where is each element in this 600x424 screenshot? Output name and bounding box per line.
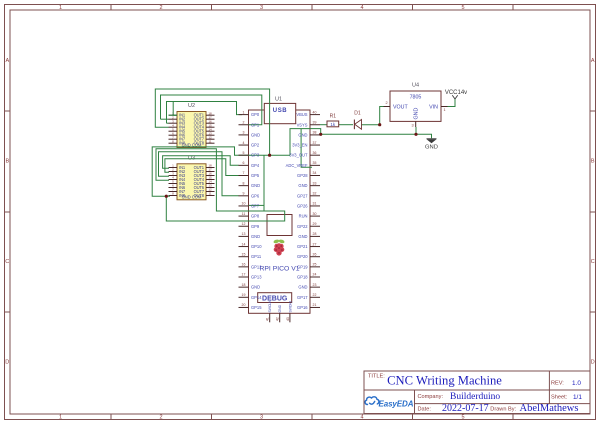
svg-text:41: 41	[266, 317, 270, 321]
svg-text:TITLE:: TITLE:	[368, 374, 385, 380]
svg-text:GP1: GP1	[251, 122, 260, 127]
svg-text:18: 18	[242, 283, 246, 287]
svg-text:32: 32	[313, 192, 317, 196]
svg-text:28: 28	[313, 232, 317, 236]
svg-text:VBUS: VBUS	[296, 112, 307, 117]
svg-text:2: 2	[243, 120, 245, 124]
svg-text:U1: U1	[275, 97, 282, 103]
svg-text:14: 14	[242, 242, 246, 246]
svg-text:C: C	[5, 259, 9, 265]
svg-text:2: 2	[159, 5, 162, 11]
svg-text:GND COM: GND COM	[182, 195, 202, 200]
svg-text:12: 12	[242, 222, 246, 226]
svg-text:GND: GND	[425, 145, 438, 151]
svg-text:40: 40	[313, 110, 317, 114]
svg-text:37: 37	[313, 141, 317, 145]
svg-text:GP14: GP14	[251, 295, 262, 300]
svg-text:3V3_OUT: 3V3_OUT	[289, 153, 308, 158]
svg-text:26: 26	[313, 252, 317, 256]
svg-text:1.0: 1.0	[572, 380, 581, 387]
svg-text:VIN: VIN	[429, 104, 438, 110]
svg-text:13: 13	[242, 232, 246, 236]
svg-text:Builderduino: Builderduino	[450, 392, 500, 402]
svg-text:33: 33	[313, 181, 317, 185]
svg-text:REV:: REV:	[551, 381, 564, 387]
svg-text:29: 29	[313, 222, 317, 226]
svg-text:GND: GND	[298, 234, 307, 239]
svg-text:ADC_VREF: ADC_VREF	[286, 163, 308, 168]
svg-text:43: 43	[286, 317, 290, 321]
svg-text:VOUT: VOUT	[393, 104, 408, 110]
svg-text:11: 11	[242, 212, 246, 216]
svg-text:1: 1	[59, 5, 62, 11]
svg-text:19: 19	[242, 293, 246, 297]
svg-text:SWCLK: SWCLK	[268, 300, 272, 313]
svg-text:GP21: GP21	[297, 244, 308, 249]
svg-text:GP17: GP17	[297, 295, 308, 300]
svg-text:42: 42	[276, 317, 280, 321]
svg-text:2: 2	[385, 101, 387, 105]
svg-text:GND: GND	[298, 183, 307, 188]
svg-text:5: 5	[461, 415, 464, 421]
svg-text:6: 6	[243, 161, 245, 165]
svg-text:Date:: Date:	[418, 407, 432, 413]
svg-text:34: 34	[313, 171, 317, 175]
svg-text:24: 24	[313, 273, 317, 277]
svg-text:GND: GND	[414, 108, 420, 120]
svg-text:GP10: GP10	[251, 244, 262, 249]
svg-text:AbelMathews: AbelMathews	[520, 403, 579, 414]
svg-text:1/1: 1/1	[573, 394, 582, 401]
svg-text:Sheet:: Sheet:	[551, 395, 568, 401]
svg-text:4: 4	[243, 141, 245, 145]
svg-text:GP15: GP15	[251, 305, 262, 310]
svg-text:VCC14v: VCC14v	[445, 90, 467, 96]
svg-text:16: 16	[242, 263, 246, 267]
svg-text:Company:: Company:	[418, 394, 444, 400]
svg-text:A: A	[591, 58, 595, 64]
svg-text:30: 30	[313, 212, 317, 216]
svg-text:8: 8	[243, 181, 245, 185]
svg-text:SWDIO: SWDIO	[288, 301, 292, 313]
svg-text:GP9: GP9	[251, 224, 260, 229]
svg-text:GP7: GP7	[251, 203, 260, 208]
svg-text:GP0: GP0	[251, 112, 260, 117]
svg-text:RUN: RUN	[299, 214, 308, 219]
svg-text:2022-07-17: 2022-07-17	[442, 403, 489, 414]
svg-text:35: 35	[313, 161, 317, 165]
svg-text:GP28: GP28	[297, 173, 308, 178]
svg-text:GP26: GP26	[297, 203, 308, 208]
svg-text:3V3_EN: 3V3_EN	[292, 143, 307, 148]
svg-text:GP4: GP4	[251, 163, 260, 168]
svg-text:GP3: GP3	[251, 153, 260, 158]
svg-text:1: 1	[243, 110, 245, 114]
svg-text:4: 4	[360, 5, 363, 11]
svg-text:1: 1	[443, 108, 445, 112]
svg-text:10: 10	[242, 202, 246, 206]
svg-text:USB: USB	[273, 108, 288, 114]
svg-text:11: 11	[208, 192, 211, 196]
svg-text:D1: D1	[354, 111, 361, 117]
svg-text:Drawn By:: Drawn By:	[490, 407, 516, 413]
svg-text:GP20: GP20	[297, 254, 308, 259]
svg-text:3: 3	[411, 124, 413, 128]
svg-text:4: 4	[360, 415, 363, 421]
svg-text:GND: GND	[251, 132, 260, 137]
svg-text:3: 3	[260, 415, 263, 421]
svg-text:R1: R1	[330, 114, 337, 120]
svg-text:5: 5	[243, 151, 245, 155]
svg-text:GND: GND	[251, 285, 260, 290]
svg-text:31: 31	[313, 202, 317, 206]
svg-text:U2: U2	[188, 103, 195, 109]
svg-text:3: 3	[260, 5, 263, 11]
svg-text:GP5: GP5	[251, 173, 260, 178]
svg-text:GP13: GP13	[251, 275, 262, 280]
svg-text:D: D	[5, 360, 9, 366]
svg-text:7: 7	[243, 171, 245, 175]
svg-text:GP2: GP2	[251, 143, 260, 148]
svg-text:GP6: GP6	[251, 193, 260, 198]
svg-text:GND: GND	[298, 285, 307, 290]
svg-text:A: A	[5, 58, 9, 64]
svg-text:RPI PICO V1: RPI PICO V1	[259, 266, 299, 273]
svg-text:B: B	[591, 159, 595, 165]
svg-text:38: 38	[313, 131, 317, 135]
svg-text:21: 21	[313, 303, 317, 307]
svg-text:CNC Writing Machine: CNC Writing Machine	[387, 374, 502, 388]
svg-text:20: 20	[242, 303, 246, 307]
svg-text:GP22: GP22	[297, 224, 308, 229]
svg-text:11: 11	[208, 139, 211, 143]
svg-text:GND: GND	[251, 183, 260, 188]
svg-text:GND: GND	[298, 132, 307, 137]
svg-text:39: 39	[313, 120, 317, 124]
svg-text:GP18: GP18	[297, 275, 308, 280]
svg-text:B: B	[5, 159, 9, 165]
svg-text:C: C	[591, 259, 595, 265]
svg-text:17: 17	[242, 273, 246, 277]
svg-text:25: 25	[313, 263, 317, 267]
svg-text:9: 9	[243, 192, 245, 196]
svg-text:VSYS: VSYS	[297, 122, 308, 127]
svg-text:1: 1	[59, 415, 62, 421]
svg-text:15: 15	[242, 252, 246, 256]
svg-text:GP27: GP27	[297, 193, 308, 198]
svg-text:3: 3	[243, 131, 245, 135]
svg-text:27: 27	[313, 242, 317, 246]
svg-text:23: 23	[313, 283, 317, 287]
svg-text:5: 5	[461, 5, 464, 11]
svg-text:GND: GND	[278, 304, 282, 312]
svg-text:22: 22	[313, 293, 317, 297]
svg-text:D: D	[591, 360, 595, 366]
svg-text:GND: GND	[251, 234, 260, 239]
svg-text:36: 36	[313, 151, 317, 155]
svg-text:DEBUG: DEBUG	[262, 296, 288, 303]
svg-text:GP11: GP11	[251, 254, 262, 259]
svg-text:1k: 1k	[330, 122, 336, 127]
svg-text:7805: 7805	[410, 95, 422, 101]
svg-text:2: 2	[159, 415, 162, 421]
svg-text:EasyEDA: EasyEDA	[379, 400, 414, 409]
svg-text:GP8: GP8	[251, 214, 260, 219]
svg-text:GP16: GP16	[297, 305, 308, 310]
svg-text:U4: U4	[412, 82, 419, 88]
